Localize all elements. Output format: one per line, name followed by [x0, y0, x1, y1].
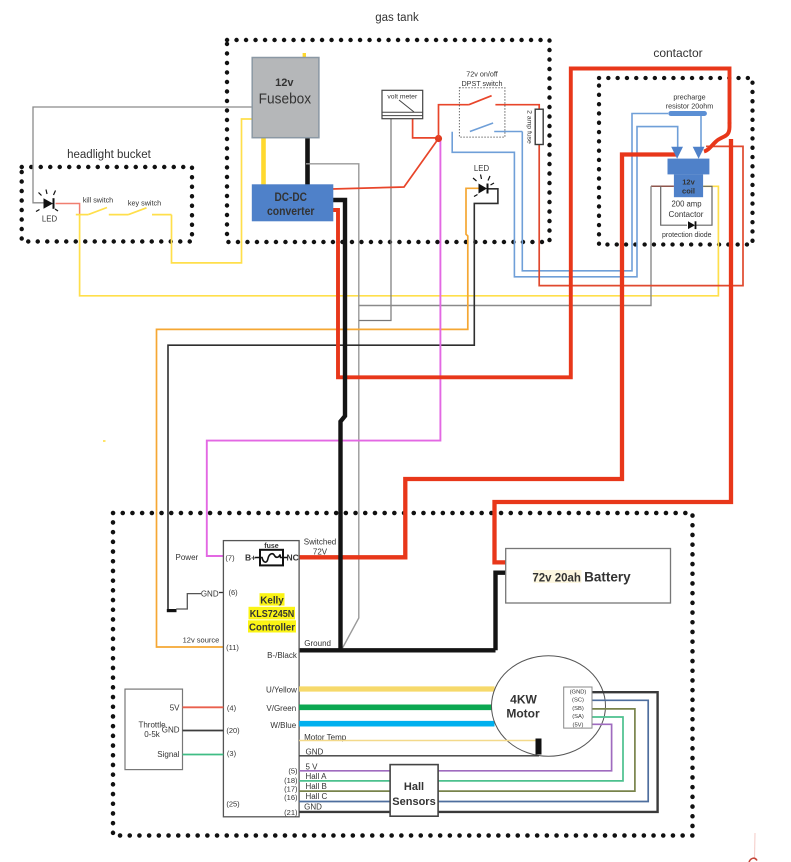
wire: gray GND label dash to pin 6 [219, 592, 223, 594]
svg-text:Hall B: Hall B [306, 782, 327, 791]
svg-text:72V: 72V [313, 548, 328, 557]
wire: red LED cathode to kill switch junction [56, 204, 80, 215]
wire: gray protection diode loop across coil [661, 186, 687, 225]
protection diode D3 [662, 221, 712, 239]
wire: blue DPST right pole loop to precharge resistor left [522, 114, 668, 271]
svg-text:(11): (11) [226, 643, 239, 652]
wire: thick black fusebox to DC-DC converter [305, 136, 310, 186]
volt meter M1 [382, 90, 423, 118]
svg-text:NC: NC [287, 553, 299, 563]
wire: motor temp GND return [299, 755, 539, 757]
wire: thick motor phase W blue [299, 721, 494, 727]
wire: motor temp sensor tan [299, 740, 535, 742]
svg-text:U/Yellow: U/Yellow [266, 686, 297, 695]
svg-text:(20): (20) [226, 726, 240, 735]
svg-text:LED: LED [42, 215, 58, 224]
svg-text:72v on/off: 72v on/off [466, 70, 497, 79]
headlight bucket enclosure (dotted box) [22, 149, 192, 242]
wire: black gas-tank LED to controller pin 6 ground run [168, 189, 498, 610]
wire: black connector stub at ground run end [167, 609, 177, 612]
motor M2 circle [492, 656, 606, 757]
wire: red 2 amp fuse to contactor right contact [539, 144, 743, 286]
contactor enclosure (dotted box) [599, 46, 753, 245]
svg-text:Controller: Controller [249, 622, 295, 633]
wire: hall B olive loop [299, 709, 635, 791]
controller internal fuse F2 [245, 543, 299, 565]
DPST switch S3 (dashed box) [459, 70, 505, 138]
svg-text:B-/Black: B-/Black [267, 651, 298, 660]
svg-text:(4): (4) [227, 704, 237, 713]
svg-text:72v 20ah Battery: 72v 20ah Battery [532, 570, 631, 585]
svg-text:Switched: Switched [304, 538, 336, 547]
wire: red DC-DC input from junction (diagonal) [332, 139, 439, 190]
svg-text:2 amp fuse: 2 amp fuse [526, 110, 533, 144]
wire: blue precharge resistor right to contactor right contact [700, 114, 702, 148]
svg-text:Power: Power [176, 553, 199, 562]
svg-text:Sensors: Sensors [392, 796, 435, 808]
wire: gray contactor coil left to ground bus [651, 185, 674, 187]
motor hall pin box [564, 687, 592, 728]
svg-text:(5): (5) [288, 767, 298, 776]
svg-text:(5V): (5V) [573, 722, 584, 728]
tiny yellow artifact dot [103, 440, 106, 442]
svg-text:GND: GND [162, 726, 180, 735]
svg-text:Hall C: Hall C [306, 792, 328, 801]
svg-text:0-5k: 0-5k [144, 730, 161, 739]
DC-DC converter U3 [252, 185, 332, 221]
controller left outside labels [176, 553, 220, 645]
svg-text:Ground: Ground [304, 639, 331, 648]
svg-text:Kelly: Kelly [260, 595, 284, 606]
wire: hall 5V purple loop [299, 724, 611, 771]
controller pin labels left [225, 554, 240, 809]
svg-text:(21): (21) [284, 808, 298, 817]
wire: yellow key switch to 12v fusebox [172, 119, 253, 263]
wire: red DPST right contact to 2 amp fuse [495, 105, 539, 110]
svg-text:200 amp: 200 amp [672, 200, 703, 209]
kill switch S1 [76, 196, 129, 215]
wire: thick yellow fusebox to DC-DC converter [261, 136, 266, 186]
wire: hall A teal loop [299, 717, 623, 781]
wire: hall C steel-blue loop [299, 700, 648, 801]
svg-text:GND: GND [304, 803, 322, 812]
svg-text:contactor: contactor [653, 46, 702, 60]
wire: thick black DC-DC ground down to B- bus [331, 200, 345, 650]
wire: thick red S-curve into contactor right contact [704, 122, 730, 152]
controller right side labels [266, 538, 347, 818]
svg-text:(6): (6) [229, 588, 239, 597]
wire: throttle signal green [183, 754, 224, 756]
wire: blue DPST left pole loop to contactor left contact [452, 127, 678, 277]
svg-text:volt meter: volt meter [387, 94, 418, 101]
faint pink artifact bottom right [749, 833, 757, 862]
wire: thick black B- ground bus controller to battery [299, 648, 495, 652]
wire: gray ground bus from black wire down to controller B- [306, 164, 359, 648]
svg-text:resistor 20ohm: resistor 20ohm [666, 102, 714, 111]
svg-text:(16): (16) [284, 793, 298, 802]
svg-text:Fusebox: Fusebox [259, 91, 312, 108]
gas tank enclosure (dotted box) [227, 12, 550, 242]
svg-text:protection diode: protection diode [662, 230, 712, 239]
svg-text:(25): (25) [226, 800, 240, 809]
svg-text:5V: 5V [170, 704, 180, 713]
svg-text:(3): (3) [227, 749, 237, 758]
throttle box U5 [125, 689, 183, 770]
svg-text:(GND): (GND) [570, 690, 587, 696]
svg-text:(SC): (SC) [572, 698, 584, 704]
contactor K1 precharge resistor R1 [666, 93, 714, 114]
svg-text:headlight bucket: headlight bucket [67, 149, 152, 161]
switch lever: DPST blue pole [470, 123, 522, 132]
LED D2 (gas tank) [473, 164, 494, 197]
svg-text:DPST switch: DPST switch [461, 79, 502, 88]
svg-text:GND: GND [201, 590, 219, 599]
svg-text:Contactor: Contactor [669, 209, 704, 219]
wire: yellow 12v return, kill-switch junction down and across to contactor coil [80, 186, 719, 295]
svg-text:LED: LED [474, 164, 490, 173]
wire: red volt meter positive to junction [413, 118, 439, 138]
12v Fusebox U2 [252, 58, 319, 138]
controller/battery/motor enclosure (dotted box) [113, 513, 693, 836]
svg-text:Hall A: Hall A [306, 772, 328, 781]
contactor K1 body and contacts [668, 147, 710, 219]
svg-text:Hall: Hall [404, 781, 424, 793]
svg-text:key switch: key switch [128, 199, 161, 208]
svg-text:precharge: precharge [673, 93, 705, 102]
wire: gray jog stub to controller GND pin 6 [176, 594, 201, 609]
svg-text:Signal: Signal [157, 750, 179, 759]
svg-text:gas tank: gas tank [375, 12, 419, 24]
wire: thick motor phase U yellow [299, 686, 494, 691]
wire: hall GND black loop [299, 692, 657, 812]
controller U1 box [223, 541, 299, 817]
node: red junction dot [435, 135, 442, 142]
svg-text:(SB): (SB) [572, 706, 584, 712]
svg-text:4KW: 4KW [510, 693, 537, 707]
wire: throttle GND black [183, 730, 224, 732]
svg-text:Motor: Motor [506, 707, 540, 721]
svg-text:(7): (7) [225, 554, 235, 563]
svg-text:12v: 12v [682, 178, 695, 187]
wire: thick black battery negative to B- bus [496, 573, 507, 651]
wire: thick red contactor right contact to battery positive [495, 139, 732, 562]
svg-text:(SA): (SA) [572, 714, 584, 720]
svg-text:12v source: 12v source [183, 636, 220, 645]
wire: yellow stub on fusebox top [303, 53, 306, 58]
svg-text:B+: B+ [245, 553, 256, 563]
wire: thick red contactor left contact to controller B+ (switched 72V) [299, 155, 677, 558]
controller Kelly label (yellow highlight) [248, 593, 296, 633]
wire: thick motor phase V green [299, 704, 492, 710]
svg-text:12v: 12v [275, 77, 294, 89]
hall sensors box U4 [390, 765, 438, 817]
wire: red junction up to DPST switch left contact [439, 105, 469, 139]
wire: throttle 5V red [183, 706, 224, 708]
switch lever: DPST red pole [469, 96, 492, 105]
svg-text:(18): (18) [284, 776, 298, 785]
wire: orange gas-tank LED to controller pin 11 (12v source) [157, 188, 479, 647]
fuse F1 (2 amp) [526, 109, 544, 144]
svg-text:converter: converter [267, 206, 315, 218]
wire: magenta switched power to controller pin 7 [207, 140, 441, 557]
svg-text:W/Blue: W/Blue [270, 721, 296, 730]
svg-text:DC-DC: DC-DC [274, 192, 307, 204]
motor temp sensor stub [536, 739, 542, 755]
svg-text:KLS7245N: KLS7245N [250, 609, 295, 620]
svg-text:V/Green: V/Green [266, 704, 296, 713]
LED D1 (headlight bucket) [36, 190, 58, 224]
svg-text:coil: coil [682, 187, 695, 196]
wire: thick red DC-DC 72v input from contactor right contact (top run) [331, 69, 730, 378]
battery BT1 [506, 549, 671, 604]
svg-text:kill switch: kill switch [83, 196, 113, 205]
key switch S2 [128, 199, 172, 215]
wire: gray 12v feed fusebox to headlight LED [33, 107, 252, 203]
wire: gray volt meter negative down to ground bus [359, 118, 391, 321]
